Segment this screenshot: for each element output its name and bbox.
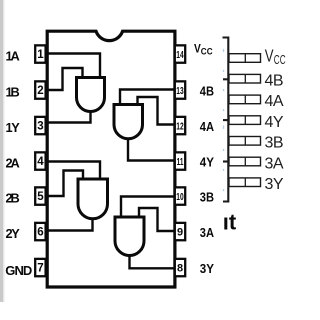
svg-text:4A: 4A [265, 93, 284, 110]
svg-text:3Y: 3Y [265, 176, 284, 193]
svg-text:8: 8 [177, 263, 183, 275]
svg-text:9: 9 [177, 227, 183, 239]
svg-text:3: 3 [37, 121, 43, 133]
svg-text:CC: CC [274, 53, 286, 67]
svg-text:3B: 3B [265, 135, 284, 152]
svg-text:11: 11 [177, 156, 184, 168]
svg-text:1Y: 1Y [6, 120, 21, 135]
svg-text:10: 10 [176, 191, 183, 203]
svg-text:2: 2 [37, 85, 43, 97]
svg-text:1B: 1B [6, 85, 20, 100]
svg-text:2Y: 2Y [6, 226, 21, 241]
svg-text:4B: 4B [200, 83, 214, 98]
svg-text:V: V [265, 46, 274, 66]
svg-text:7: 7 [37, 263, 43, 275]
svg-text:ıt: ıt [223, 210, 237, 235]
svg-text:3B: 3B [200, 189, 214, 204]
svg-text:6: 6 [37, 227, 43, 239]
svg-text:3A: 3A [265, 155, 284, 172]
svg-text:3Y: 3Y [200, 261, 215, 276]
svg-text:CC: CC [201, 47, 213, 58]
svg-text:4B: 4B [265, 73, 284, 90]
svg-text:5: 5 [37, 191, 44, 203]
svg-text:2B: 2B [6, 191, 20, 206]
svg-text:13: 13 [176, 85, 183, 97]
svg-text:12: 12 [176, 120, 183, 132]
svg-text:4A: 4A [200, 119, 214, 134]
svg-text:14: 14 [176, 49, 183, 61]
svg-text:4: 4 [37, 156, 44, 168]
svg-text:1A: 1A [6, 49, 20, 64]
svg-text:2A: 2A [6, 156, 20, 171]
svg-text:GND: GND [5, 263, 32, 278]
svg-text:4Y: 4Y [265, 114, 284, 131]
svg-text:V: V [194, 41, 201, 55]
svg-text:4Y: 4Y [200, 154, 215, 169]
svg-text:1: 1 [37, 49, 44, 61]
svg-text:3A: 3A [200, 225, 214, 240]
